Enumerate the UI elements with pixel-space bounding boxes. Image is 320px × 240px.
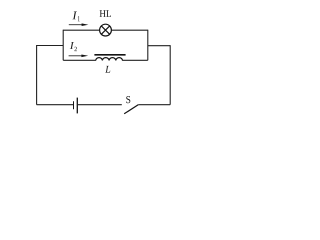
wire: right node stub: [148, 45, 170, 47]
battery: long plate: [76, 98, 78, 114]
inductor L coil: [96, 58, 123, 61]
wire: bottom left segment (to battery): [37, 104, 73, 106]
wire: inner-left vertical: [62, 30, 64, 61]
wire: inner-right vertical: [147, 30, 149, 61]
wire: outer-right vertical: [169, 45, 171, 104]
wire: top branch right segment: [112, 29, 148, 31]
label I1: [72, 11, 77, 19]
label L: [105, 66, 110, 73]
switch S blade: [124, 105, 138, 114]
wire: bottom right segment (switch to corner): [138, 104, 170, 106]
label S: [126, 96, 130, 103]
wire: bottom middle segment (battery to switch): [78, 104, 122, 106]
wire: left node stub: [37, 45, 64, 47]
current arrow I1: [69, 23, 89, 26]
wire: middle branch left segment: [63, 59, 96, 61]
battery: short plate: [73, 101, 75, 109]
current arrow I2: [69, 55, 89, 58]
inductor L core bar: [94, 54, 125, 56]
wire: middle branch right segment: [122, 59, 148, 61]
wire: top branch left segment: [63, 29, 99, 31]
label HL: [100, 10, 106, 17]
label I2: [70, 42, 74, 49]
lamp HL: [100, 24, 112, 36]
wire: outer-left vertical: [36, 45, 38, 105]
